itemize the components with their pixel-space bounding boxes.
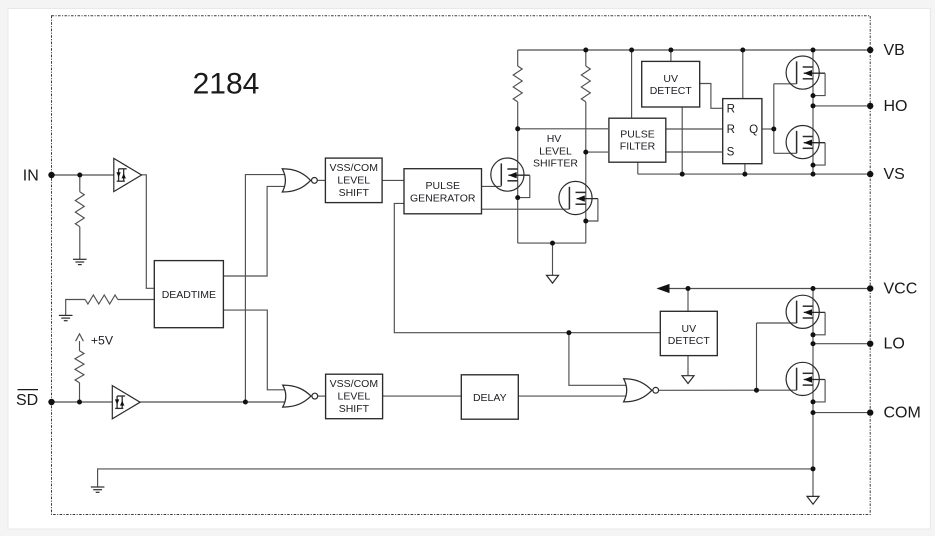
svg-text:IN: IN (23, 168, 39, 185)
svg-text:+5V: +5V (91, 334, 114, 348)
svg-text:DETECT: DETECT (650, 85, 693, 97)
svg-text:VSS/COM: VSS/COM (330, 162, 378, 174)
svg-text:VS: VS (884, 166, 905, 183)
svg-text:COM: COM (884, 405, 921, 422)
svg-text:LO: LO (884, 336, 905, 353)
svg-text:VCC: VCC (884, 281, 918, 298)
svg-text:SHIFT: SHIFT (339, 187, 370, 199)
svg-text:S: S (727, 146, 735, 159)
svg-text:LEVEL: LEVEL (337, 174, 370, 186)
svg-text:HO: HO (884, 98, 908, 115)
svg-text:HV: HV (547, 133, 562, 145)
svg-text:VSS/COM: VSS/COM (330, 378, 378, 390)
svg-text:R: R (727, 123, 735, 136)
svg-text:LEVEL: LEVEL (338, 390, 371, 402)
svg-text:UV: UV (682, 323, 697, 335)
svg-text:LEVEL: LEVEL (539, 145, 572, 157)
svg-text:SHIFT: SHIFT (339, 403, 370, 415)
svg-text:PULSE: PULSE (426, 180, 460, 192)
svg-text:DETECT: DETECT (668, 335, 711, 347)
svg-text:FILTER: FILTER (620, 140, 656, 152)
svg-text:Q: Q (749, 123, 758, 136)
svg-text:PULSE: PULSE (620, 128, 654, 140)
svg-text:UV: UV (663, 73, 678, 85)
svg-text:DEADTIME: DEADTIME (162, 289, 216, 301)
svg-text:GENERATOR: GENERATOR (410, 193, 476, 205)
svg-text:DELAY: DELAY (473, 392, 507, 404)
svg-text:SHIFTER: SHIFTER (533, 158, 578, 170)
svg-text:2184: 2184 (193, 68, 260, 101)
svg-text:VB: VB (884, 42, 905, 59)
svg-text:SD: SD (16, 392, 38, 409)
svg-text:R: R (727, 103, 735, 116)
